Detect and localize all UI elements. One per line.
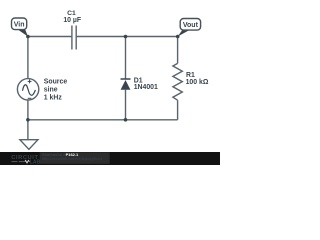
svg-text:1N4001: 1N4001 — [134, 84, 158, 91]
node junction dot diode bottom — [124, 118, 128, 122]
wire top-left segment — [28, 36, 72, 38]
ground — [20, 140, 38, 150]
wire bottom segment — [28, 119, 178, 121]
wire top-right segment — [76, 36, 178, 38]
logo zigzag — [25, 160, 30, 163]
logo lines — [12, 161, 18, 163]
wire right vertical lower — [177, 100, 179, 120]
svg-text:Source: Source — [44, 78, 68, 85]
svg-text:1 kHz: 1 kHz — [44, 95, 63, 102]
node Vin flag — [12, 18, 28, 37]
svg-text:http://circuitlab.com/c43kjsuy: http://circuitlab.com/c43kjsuypbxx4 — [42, 156, 103, 161]
node Vout flag — [178, 19, 201, 37]
svg-text:Vout: Vout — [183, 22, 199, 29]
capacitor C1 — [72, 26, 76, 50]
svg-text:10 µF: 10 µF — [63, 17, 81, 24]
wire left vertical lower — [27, 100, 29, 140]
svg-text:100 kΩ: 100 kΩ — [186, 79, 209, 86]
resistor R1 — [173, 63, 182, 100]
svg-text:sine: sine — [44, 87, 58, 94]
wire diode lower — [125, 90, 127, 120]
source V1 sine — [17, 79, 38, 100]
svg-text:LAB: LAB — [30, 159, 41, 165]
svg-text:Vin: Vin — [14, 22, 25, 29]
node junction dot Vout corner — [176, 35, 180, 39]
wire right vertical upper — [177, 37, 179, 64]
wire diode upper — [125, 37, 127, 80]
svg-text:C1: C1 — [67, 10, 76, 17]
node junction dot diode top — [124, 35, 128, 39]
watermark banner — [0, 152, 220, 165]
node junction dot ground — [26, 118, 30, 122]
node junction dot Vin — [26, 35, 30, 39]
diode D1 — [121, 79, 131, 90]
wire left vertical upper — [27, 37, 29, 79]
